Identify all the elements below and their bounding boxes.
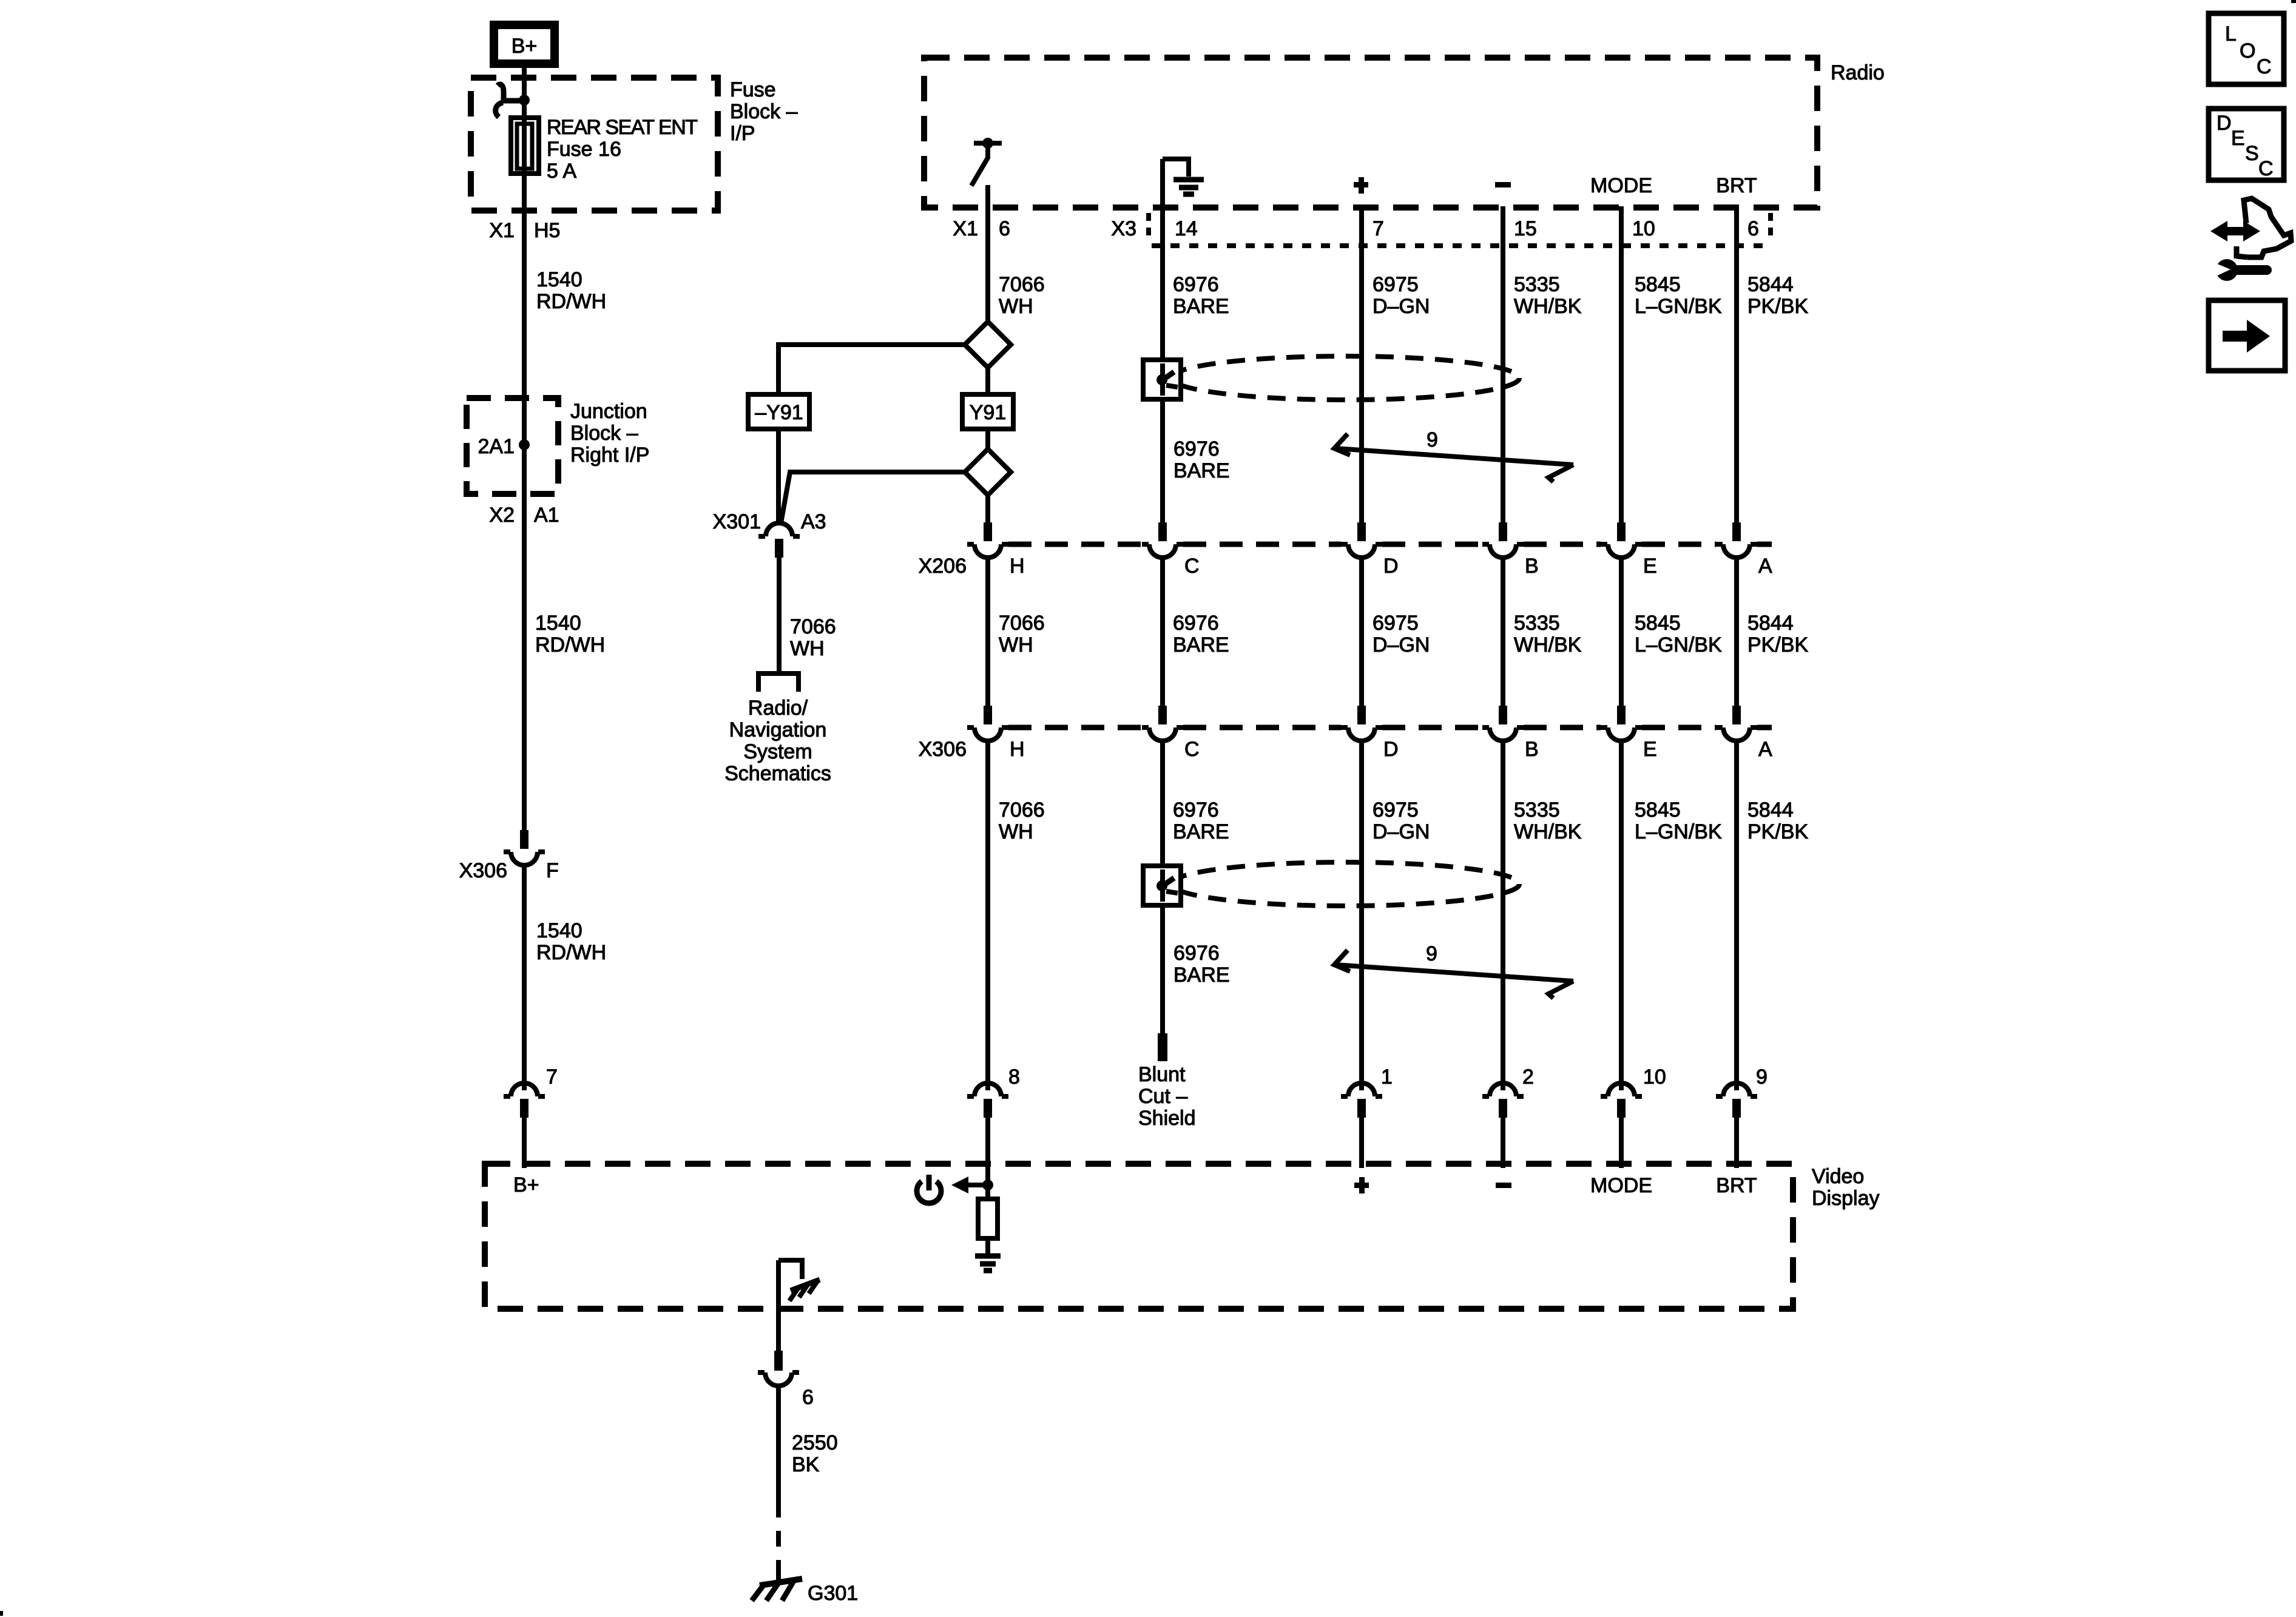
svg-text:C: C xyxy=(2257,55,2272,78)
svg-text:15: 15 xyxy=(1514,217,1537,240)
svg-text:B+: B+ xyxy=(512,35,538,58)
svg-text:G301: G301 xyxy=(808,1582,858,1605)
svg-text:5335: 5335 xyxy=(1514,612,1560,635)
svg-text:WH/BK: WH/BK xyxy=(1514,633,1582,657)
svg-text:X301: X301 xyxy=(713,510,761,533)
svg-text:MODE: MODE xyxy=(1590,174,1652,197)
svg-text:REAR SEAT ENT: REAR SEAT ENT xyxy=(547,116,697,139)
svg-text:Junction: Junction xyxy=(570,400,647,423)
svg-text:PK/BK: PK/BK xyxy=(1747,633,1808,657)
svg-text:6: 6 xyxy=(999,217,1010,240)
svg-text:7066: 7066 xyxy=(999,612,1045,635)
svg-text:7: 7 xyxy=(546,1065,558,1089)
svg-text:9: 9 xyxy=(1426,942,1437,965)
svg-text:H5: H5 xyxy=(534,219,560,242)
svg-text:D: D xyxy=(2217,112,2232,135)
svg-text:WH: WH xyxy=(999,820,1033,843)
svg-text:E: E xyxy=(1643,738,1657,761)
svg-text:2550: 2550 xyxy=(792,1431,838,1454)
svg-text:7066: 7066 xyxy=(999,273,1045,296)
svg-text:BRT: BRT xyxy=(1716,174,1757,197)
svg-text:2A1: 2A1 xyxy=(478,435,515,458)
svg-text:F: F xyxy=(546,859,559,882)
svg-text:BARE: BARE xyxy=(1173,633,1229,657)
svg-text:C: C xyxy=(1184,738,1200,761)
svg-text:D: D xyxy=(1383,555,1399,578)
svg-text:10: 10 xyxy=(1632,217,1655,240)
svg-text:1: 1 xyxy=(1381,1065,1393,1089)
svg-text:5335: 5335 xyxy=(1514,798,1560,822)
svg-text:X206: X206 xyxy=(919,555,967,578)
svg-text:Fuse: Fuse xyxy=(730,78,776,101)
svg-text:PK/BK: PK/BK xyxy=(1747,295,1808,318)
svg-text:RD/WH: RD/WH xyxy=(536,290,606,313)
svg-text:–Y91: –Y91 xyxy=(755,401,803,424)
svg-text:Fuse 16: Fuse 16 xyxy=(547,138,621,161)
svg-text:Schematics: Schematics xyxy=(724,762,831,785)
svg-text:6976: 6976 xyxy=(1173,437,1220,461)
svg-text:5 A: 5 A xyxy=(547,160,576,183)
svg-text:5844: 5844 xyxy=(1747,612,1794,635)
svg-text:B+: B+ xyxy=(513,1173,539,1197)
svg-text:E: E xyxy=(2231,127,2245,150)
svg-text:1540: 1540 xyxy=(536,268,582,291)
svg-text:I/P: I/P xyxy=(730,122,755,145)
svg-text:D–GN: D–GN xyxy=(1373,633,1430,657)
svg-text:A: A xyxy=(1758,738,1772,761)
svg-text:6975: 6975 xyxy=(1373,273,1419,296)
svg-text:BARE: BARE xyxy=(1173,295,1229,318)
svg-text:B: B xyxy=(1525,555,1539,578)
svg-text:WH: WH xyxy=(999,633,1033,657)
svg-text:9: 9 xyxy=(1756,1065,1768,1089)
svg-text:C: C xyxy=(2258,157,2274,180)
svg-text:10: 10 xyxy=(1643,1065,1666,1089)
svg-text:BARE: BARE xyxy=(1173,820,1229,843)
svg-text:7066: 7066 xyxy=(790,615,836,638)
svg-text:Navigation: Navigation xyxy=(729,718,827,741)
svg-text:BRT: BRT xyxy=(1716,1174,1757,1197)
svg-text:B: B xyxy=(1525,738,1539,761)
svg-text:A: A xyxy=(1758,555,1772,578)
svg-text:L: L xyxy=(2225,22,2237,46)
svg-text:X1: X1 xyxy=(489,219,515,242)
svg-text:Blunt: Blunt xyxy=(1138,1063,1186,1086)
svg-text:C: C xyxy=(1184,555,1200,578)
svg-text:O: O xyxy=(2240,39,2255,62)
svg-text:A1: A1 xyxy=(534,504,559,527)
svg-text:A3: A3 xyxy=(801,510,826,533)
svg-text:7066: 7066 xyxy=(999,798,1045,822)
svg-text:S: S xyxy=(2245,142,2259,165)
svg-text:6: 6 xyxy=(802,1386,814,1409)
svg-text:5335: 5335 xyxy=(1514,273,1560,296)
svg-text:WH/BK: WH/BK xyxy=(1514,820,1582,843)
svg-text:6975: 6975 xyxy=(1373,612,1419,635)
svg-text:8: 8 xyxy=(1008,1065,1020,1089)
svg-text:WH: WH xyxy=(790,637,825,660)
svg-text:System: System xyxy=(743,740,812,763)
svg-text:L–GN/BK: L–GN/BK xyxy=(1635,820,1722,843)
svg-text:X306: X306 xyxy=(919,738,967,761)
svg-text:2: 2 xyxy=(1522,1065,1534,1089)
svg-text:D–GN: D–GN xyxy=(1373,820,1430,843)
svg-text:1540: 1540 xyxy=(536,919,582,942)
svg-text:Block –: Block – xyxy=(570,422,638,445)
svg-text:WH/BK: WH/BK xyxy=(1514,295,1582,318)
svg-text:Y91: Y91 xyxy=(970,401,1007,424)
svg-text:BARE: BARE xyxy=(1173,459,1230,482)
svg-text:5845: 5845 xyxy=(1635,612,1681,635)
svg-text:L–GN/BK: L–GN/BK xyxy=(1635,295,1722,318)
svg-text:6: 6 xyxy=(1747,217,1759,240)
svg-text:H: H xyxy=(1010,738,1025,761)
svg-text:Shield: Shield xyxy=(1138,1107,1196,1130)
svg-text:6976: 6976 xyxy=(1173,273,1219,296)
svg-text:BARE: BARE xyxy=(1173,964,1230,987)
svg-text:PK/BK: PK/BK xyxy=(1747,820,1808,843)
svg-text:7: 7 xyxy=(1373,217,1384,240)
svg-text:6976: 6976 xyxy=(1173,612,1219,635)
svg-text:RD/WH: RD/WH xyxy=(535,633,605,657)
svg-text:H: H xyxy=(1010,555,1025,578)
svg-text:Radio/: Radio/ xyxy=(748,697,808,720)
svg-text:Display: Display xyxy=(1812,1187,1879,1210)
svg-text:Radio: Radio xyxy=(1831,61,1885,84)
svg-text:MODE: MODE xyxy=(1590,1174,1652,1197)
svg-text:5844: 5844 xyxy=(1747,798,1794,822)
svg-text:9: 9 xyxy=(1427,428,1438,451)
svg-text:X2: X2 xyxy=(489,504,515,527)
svg-text:X1: X1 xyxy=(953,217,978,240)
svg-text:5844: 5844 xyxy=(1747,273,1794,296)
svg-text:WH: WH xyxy=(999,295,1033,318)
svg-text:X306: X306 xyxy=(459,859,507,882)
svg-text:1540: 1540 xyxy=(535,612,581,635)
svg-text:BK: BK xyxy=(792,1453,820,1476)
svg-text:D: D xyxy=(1383,738,1399,761)
svg-text:5845: 5845 xyxy=(1635,273,1681,296)
svg-text:Video: Video xyxy=(1812,1165,1864,1188)
svg-text:E: E xyxy=(1643,555,1657,578)
svg-text:6976: 6976 xyxy=(1173,798,1219,822)
svg-text:Block –: Block – xyxy=(730,100,798,123)
svg-text:5845: 5845 xyxy=(1635,798,1681,822)
svg-text:RD/WH: RD/WH xyxy=(536,941,606,964)
svg-text:Right I/P: Right I/P xyxy=(570,444,649,467)
svg-text:Cut –: Cut – xyxy=(1138,1085,1187,1108)
svg-text:X3: X3 xyxy=(1111,217,1136,240)
svg-text:6975: 6975 xyxy=(1373,798,1419,822)
svg-text:L–GN/BK: L–GN/BK xyxy=(1635,633,1722,657)
svg-text:14: 14 xyxy=(1175,217,1198,240)
svg-text:D–GN: D–GN xyxy=(1373,295,1430,318)
svg-text:6976: 6976 xyxy=(1173,942,1220,965)
